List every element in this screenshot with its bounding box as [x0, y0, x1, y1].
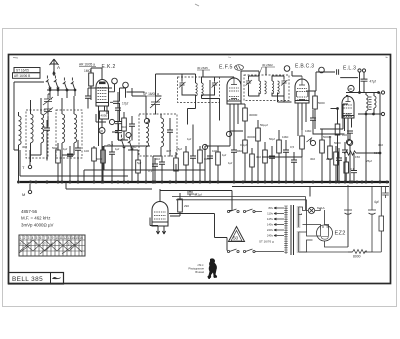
svg-text:M: M: [22, 192, 25, 197]
wire left column: [14, 82, 19, 150]
svg-text:5000: 5000: [318, 101, 325, 105]
svg-text:E.F.5: E.F.5: [219, 65, 233, 71]
svg-text:5µf: 5µf: [137, 161, 141, 165]
resistor 124: [122, 118, 127, 131]
wire EF5 anode to IF2: [238, 71, 259, 104]
svg-text:Photogravure: Photogravure: [188, 267, 204, 271]
resistor 5000 mid: [56, 150, 61, 163]
svg-text:220v: 220v: [267, 228, 274, 232]
scan speck left: [13, 57, 18, 60]
wire padding cap: [46, 120, 48, 161]
printer credit text: [188, 263, 204, 274]
warning triangle 50: [229, 227, 245, 242]
svg-text:SP 16/08 a: SP 16/08 a: [143, 92, 159, 96]
junction dots: [93, 181, 95, 183]
cathode cap EF5: [207, 156, 213, 158]
res hang 252: [250, 154, 255, 167]
cap 47uf: [361, 72, 368, 92]
cap at 193: [190, 156, 196, 158]
cap 10uf: [187, 190, 193, 196]
label 110v taps: [267, 206, 274, 238]
screen rail: [88, 88, 145, 92]
resistor chain right: [320, 140, 325, 153]
circled 70: [319, 67, 325, 73]
screen resistor left: [335, 124, 340, 135]
svg-text:1µf: 1µf: [115, 147, 119, 151]
wire trimmer: [48, 94, 50, 127]
osc coil box dashed: [139, 114, 177, 156]
IF1 secondary coil: [202, 83, 204, 96]
svg-text:a: a: [20, 242, 22, 246]
EF5 leads down: [230, 104, 238, 146]
svg-text:1µf: 1µf: [187, 137, 191, 141]
svg-text:30: 30: [349, 87, 353, 91]
transformer heater winding: [298, 232, 300, 252]
transformer T1 primary winding: [285, 206, 287, 254]
mains switch bottom contacts: [227, 249, 255, 253]
mains switch top contacts: [227, 209, 255, 213]
caps right: [336, 158, 342, 160]
title block divider: [50, 273, 52, 285]
osc cap 162: [159, 162, 165, 164]
cathode cap EL3: [351, 171, 357, 173]
svg-text:1MΩ: 1MΩ: [84, 69, 91, 73]
det resistors: [256, 128, 261, 141]
tube EK2 envelope: [96, 80, 109, 106]
svg-text:4µf: 4µf: [374, 200, 379, 204]
svg-text:302: 302: [256, 155, 261, 159]
EK2 base lines: [96, 102, 109, 104]
V6 top wire: [159, 189, 161, 202]
svg-text:302: 302: [121, 125, 126, 129]
IF1 box dashed: [178, 77, 220, 103]
screen feed horizontal: [104, 145, 230, 147]
wire EZ2 cathode to B+: [325, 241, 349, 247]
wire IF1 primary down: [188, 109, 196, 125]
svg-text:1µf: 1µf: [63, 147, 67, 151]
svg-text:8: 8: [48, 236, 50, 240]
band switch contact S1b: [54, 76, 59, 89]
svg-text:11: 11: [59, 236, 63, 240]
tube V6 envelope: [152, 202, 168, 227]
svg-text:c: c: [36, 242, 38, 246]
svg-text:100: 100: [212, 149, 217, 153]
svg-text:5000: 5000: [96, 157, 103, 161]
svg-text:1: 1: [20, 236, 22, 240]
EF5 internal grids: [229, 88, 239, 100]
cathode resistor: [92, 148, 97, 161]
speaker terminals: [381, 91, 384, 94]
svg-text:3: 3: [28, 236, 30, 240]
junction dots: [349, 181, 351, 183]
ground bus: [20, 181, 389, 183]
svg-text:M.F. = 462 kHz: M.F. = 462 kHz: [21, 216, 50, 221]
IF2 wiring: [249, 76, 285, 96]
IF2 secondary coil: [272, 81, 274, 94]
svg-text:1MΩ: 1MΩ: [130, 145, 137, 149]
band switch contact S1d: [71, 78, 76, 91]
IF1 label lead: [202, 70, 204, 77]
B+ top rail: [346, 95, 348, 97]
svg-text:f: f: [60, 242, 61, 246]
svg-text:1µf: 1µf: [193, 192, 197, 196]
wire shields: [109, 84, 126, 98]
wire feedback to OT: [344, 146, 380, 154]
svg-text:E.L.3: E.L.3: [343, 66, 356, 72]
svg-text:3mVp 4000Ω µV: 3mVp 4000Ω µV: [21, 223, 53, 228]
smoothing choke resistor 8000: [353, 250, 368, 254]
wire bottom B- run: [348, 251, 381, 253]
svg-text:25µf: 25µf: [176, 147, 182, 151]
bleeder resistor: [379, 216, 384, 231]
EF5 base line: [227, 100, 241, 102]
shield circle 70: [123, 82, 129, 88]
second filter cap electrolytic: [368, 210, 376, 252]
junction dots: [145, 181, 147, 183]
antenna coil L1: [31, 114, 34, 143]
svg-text:1µf: 1µf: [228, 161, 232, 165]
circled 30 EL3: [348, 85, 354, 91]
load resistor V6: [178, 199, 183, 212]
junction dots: [217, 181, 219, 183]
osc coil L5: [146, 118, 149, 147]
svg-text:30 2645: 30 2645: [197, 66, 208, 70]
svg-text:110v: 110v: [267, 212, 273, 216]
svg-text:50µf: 50µf: [52, 146, 58, 150]
svg-text:d: d: [44, 242, 46, 246]
band switch lower b: [128, 137, 133, 150]
AF coupling cap: [310, 118, 316, 120]
wire switch to primary taps: [255, 212, 284, 252]
more bus dots: [46, 181, 48, 183]
svg-text:25µf: 25µf: [366, 159, 372, 163]
B+ distribution vertical: [230, 104, 348, 132]
heater run left: [84, 169, 205, 171]
svg-text:16: 16: [79, 236, 83, 240]
wire grid column: [346, 72, 380, 92]
bias value box: [100, 111, 109, 119]
svg-text:2: 2: [24, 236, 26, 240]
primary tap arrows: [274, 207, 284, 237]
svg-text:150: 150: [355, 155, 360, 159]
coupling cap to EL3: [316, 69, 358, 77]
resistor bias box: [344, 162, 349, 173]
cap 17uf: [113, 101, 120, 103]
circled point: [109, 119, 114, 124]
svg-text:E.K.2: E.K.2: [102, 64, 116, 70]
svg-text:100: 100: [84, 149, 89, 153]
EBC3 base line: [295, 100, 309, 102]
svg-text:6v 1A: 6v 1A: [317, 206, 325, 210]
AVC riser: [20, 150, 138, 176]
svg-text:302: 302: [155, 157, 160, 161]
volume pot: [300, 136, 305, 149]
cap 70: [67, 154, 73, 156]
cap left of EK2: [75, 148, 81, 150]
V6 base pins: [156, 226, 165, 234]
svg-text:E.B.C.3: E.B.C.3: [295, 64, 314, 70]
cap hang 296: [291, 160, 297, 162]
svg-text:0,5: 0,5: [290, 145, 295, 149]
circled 5: [126, 133, 131, 138]
small value labels scattered: [22, 123, 383, 173]
coupling cap osc: [115, 108, 121, 110]
printer logo dog: [208, 258, 218, 279]
static coil L0: [19, 116, 22, 145]
svg-text:8000: 8000: [353, 255, 361, 259]
transformer secondary HT winding: [298, 207, 300, 227]
svg-text:AR 16/06 B: AR 16/06 B: [14, 74, 30, 78]
wire HT top runs: [172, 185, 348, 232]
svg-text:0,1µf: 0,1µf: [240, 143, 247, 147]
node line under code box: [14, 81, 44, 83]
transformer core: [291, 205, 294, 255]
output coupling to EL3: [313, 133, 345, 135]
RF coil L3: [62, 114, 65, 143]
wire heater winding to EZ2: [299, 232, 321, 252]
osc coil L6: [161, 118, 164, 147]
output transformer primary coil: [366, 95, 368, 111]
svg-text:4857-56: 4857-56: [21, 209, 38, 214]
circled 30 cathode: [99, 128, 105, 134]
anode load wire: [241, 103, 245, 105]
svg-text:25µf: 25µf: [107, 143, 113, 147]
circled 30 under tube: [347, 140, 352, 145]
wires to mains switch: [150, 191, 232, 251]
svg-text:50: 50: [42, 125, 46, 129]
top registration mark: [195, 4, 199, 6]
wire EZ2 anodes up: [303, 210, 329, 230]
component code box ST: [14, 68, 40, 73]
cathode bypass cap: [109, 152, 115, 154]
svg-text:0,1: 0,1: [148, 169, 153, 173]
EK2 anode bar: [99, 82, 106, 85]
EF5 top cap wire: [210, 76, 235, 78]
svg-text:6: 6: [40, 236, 42, 240]
svg-text:AR 16/05 a: AR 16/05 a: [79, 63, 95, 67]
IF1 primary coil: [196, 83, 198, 96]
output cap 4uf to frame: [382, 190, 389, 198]
OT wiring: [358, 93, 381, 183]
svg-text:T: T: [22, 165, 25, 170]
svg-text:30 2602: 30 2602: [262, 63, 273, 67]
tube EF5 envelope: [227, 78, 241, 104]
decoupling resistor: [243, 140, 248, 153]
heater wires bottom: [66, 182, 152, 189]
V6 internals: [154, 212, 166, 219]
EL3 base: [342, 115, 354, 117]
svg-text:9: 9: [52, 236, 54, 240]
svg-text:b: b: [28, 242, 30, 246]
IF2 trim cap secondary: [281, 79, 288, 86]
IF2 trim cap primary: [246, 79, 253, 86]
res at 186: [184, 152, 189, 165]
earth terminal M: [28, 190, 31, 193]
table diagonals: [20, 240, 82, 252]
screen resistor 30000: [243, 108, 248, 121]
EBC3 leads down: [298, 103, 306, 136]
svg-text:30000: 30000: [247, 135, 256, 139]
svg-text:245v: 245v: [267, 234, 274, 238]
svg-text:50µµf: 50µµf: [260, 123, 268, 127]
screen bypass cap: [231, 150, 237, 152]
AVC line: [112, 132, 302, 157]
svg-text:1MΩ: 1MΩ: [282, 135, 289, 139]
svg-text:50µf: 50µf: [269, 137, 275, 141]
RF coil L4: [74, 114, 77, 143]
alignment table grid: [19, 235, 85, 256]
antenna arrow: [50, 59, 59, 72]
band switch contact S1c: [63, 78, 68, 91]
IF2 secondary out to diode: [278, 93, 292, 103]
svg-text:1MΩ: 1MΩ: [305, 129, 312, 133]
svg-text:4050: 4050: [101, 114, 108, 118]
junction dots: [301, 181, 303, 183]
rectifier EZ2: [317, 225, 333, 241]
svg-text:402: 402: [166, 149, 171, 153]
IF2 box dashed: [244, 75, 289, 101]
antenna coil L2: [41, 114, 44, 143]
svg-text:30000: 30000: [249, 113, 258, 117]
svg-text:Brussel: Brussel: [195, 270, 204, 274]
shield circle 30: [112, 78, 118, 84]
svg-text:30: 30: [100, 129, 104, 133]
band switch lower a: [120, 135, 125, 148]
wire switches down: [50, 88, 75, 98]
feedthrough oval: [235, 65, 244, 71]
IF1 wiring: [182, 74, 220, 121]
table header digits: [20, 236, 83, 246]
svg-text:1µf: 1µf: [222, 153, 226, 157]
osc coil leads: [146, 108, 161, 182]
wire heater winding bottom run: [299, 251, 353, 253]
padder caps osc: [167, 130, 173, 132]
svg-text:ST 16/76 g: ST 16/76 g: [259, 240, 274, 244]
res hang 336: [334, 152, 339, 165]
second bus line right: [232, 186, 389, 188]
resistor 6000: [198, 150, 203, 163]
osc grid resistor: [136, 160, 141, 173]
EK2 leads down: [99, 106, 108, 146]
grid resistor 1M: [89, 73, 94, 86]
svg-text:125v: 125v: [267, 217, 274, 221]
cap hang 155: [152, 164, 158, 166]
schematic frame: [9, 55, 391, 284]
trimmer cap antenna upper: [43, 94, 53, 106]
EL3 leads down: [345, 118, 352, 139]
IF1 trim cap secondary: [212, 81, 219, 88]
long wire mid: [205, 76, 225, 182]
antenna coil box dashed: [26, 110, 48, 158]
svg-text:h: h: [76, 242, 78, 246]
antenna terminal A: [28, 165, 31, 168]
IF2 primary coil: [259, 81, 261, 94]
cap 50uf grid: [85, 96, 91, 98]
cathode cap under tube: [347, 131, 353, 140]
RF coil box dashed: [56, 110, 82, 158]
EBC3 plate to coupling cap: [306, 72, 323, 91]
title block box: [9, 273, 64, 285]
heater drops: [84, 146, 176, 182]
tuning gang cap osc: [150, 96, 161, 111]
svg-text:7: 7: [44, 236, 46, 240]
IF2 label lead: [265, 67, 267, 75]
IF1 trim cap primary: [179, 81, 186, 88]
EBC3 top cap wire: [292, 71, 302, 76]
svg-text:EZ2: EZ2: [335, 231, 346, 237]
svg-text:ST 16/05: ST 16/05: [16, 69, 29, 73]
svg-text:290: 290: [184, 204, 189, 208]
transformer core dashes: [369, 97, 372, 110]
padding cap left: [44, 128, 50, 130]
wire IF1 sec to EF5 grid: [209, 76, 211, 78]
svg-text:47µf: 47µf: [370, 80, 376, 84]
circled test points: [144, 118, 149, 123]
cap at 132: [129, 124, 135, 126]
svg-text:145v: 145v: [267, 223, 274, 227]
coil leads L1 L2: [31, 98, 42, 162]
first filter cap electrolytic: [344, 210, 352, 247]
grid stopper: [96, 114, 106, 122]
EL3 internals: [344, 105, 353, 117]
signature scribble: [52, 277, 61, 279]
AVC bus line: [20, 175, 128, 177]
output transformer secondary coil: [374, 96, 376, 108]
triode anode wire: [156, 74, 183, 96]
cap chain mid: [115, 122, 122, 124]
EK2 internal grids: [98, 88, 108, 100]
dial lamp: [308, 207, 314, 213]
svg-text:302: 302: [378, 143, 383, 147]
circled 30: [284, 66, 290, 72]
svg-text:80v: 80v: [268, 206, 273, 210]
EBC3 internals: [297, 89, 307, 101]
svg-text:e: e: [52, 242, 54, 246]
grid terminals: [358, 69, 361, 72]
res hang 170: [174, 158, 179, 171]
scan speck mid: [228, 56, 231, 58]
tube EBC3 envelope: [295, 79, 309, 103]
svg-text:50: 50: [233, 236, 239, 241]
wire secondary to lamp: [299, 207, 321, 215]
svg-text:3MΩ: 3MΩ: [236, 149, 243, 153]
svg-text:17µf: 17µf: [122, 102, 128, 106]
tube EL3 envelope: [342, 96, 354, 118]
coil leads L3 L4: [62, 96, 74, 182]
scan speck right: [386, 56, 388, 59]
extra dots on bus: [35, 181, 37, 183]
trimmer cap antenna lower: [43, 106, 53, 117]
wire osc grid: [132, 88, 146, 108]
switch link line: [47, 89, 76, 91]
svg-text:4: 4: [32, 236, 34, 240]
anode resistor EBC3: [313, 96, 318, 109]
svg-text:BELL 385: BELL 385: [12, 276, 43, 283]
right mid caps: [342, 150, 348, 152]
band switch contact S1a: [46, 76, 51, 89]
svg-text:A: A: [57, 65, 61, 70]
svg-text:302: 302: [22, 145, 27, 149]
junction dots bus left: [18, 181, 20, 183]
feedback resistor zigzag: [345, 151, 356, 155]
wire antenna to switch: [53, 72, 54, 76]
resistor at 103: [101, 150, 106, 163]
cathode resistor EF5: [216, 152, 221, 165]
svg-text:g: g: [68, 242, 70, 246]
svg-text:J.M.J.: J.M.J.: [197, 263, 204, 267]
svg-text:5: 5: [36, 236, 38, 240]
svg-text:302: 302: [310, 157, 315, 161]
